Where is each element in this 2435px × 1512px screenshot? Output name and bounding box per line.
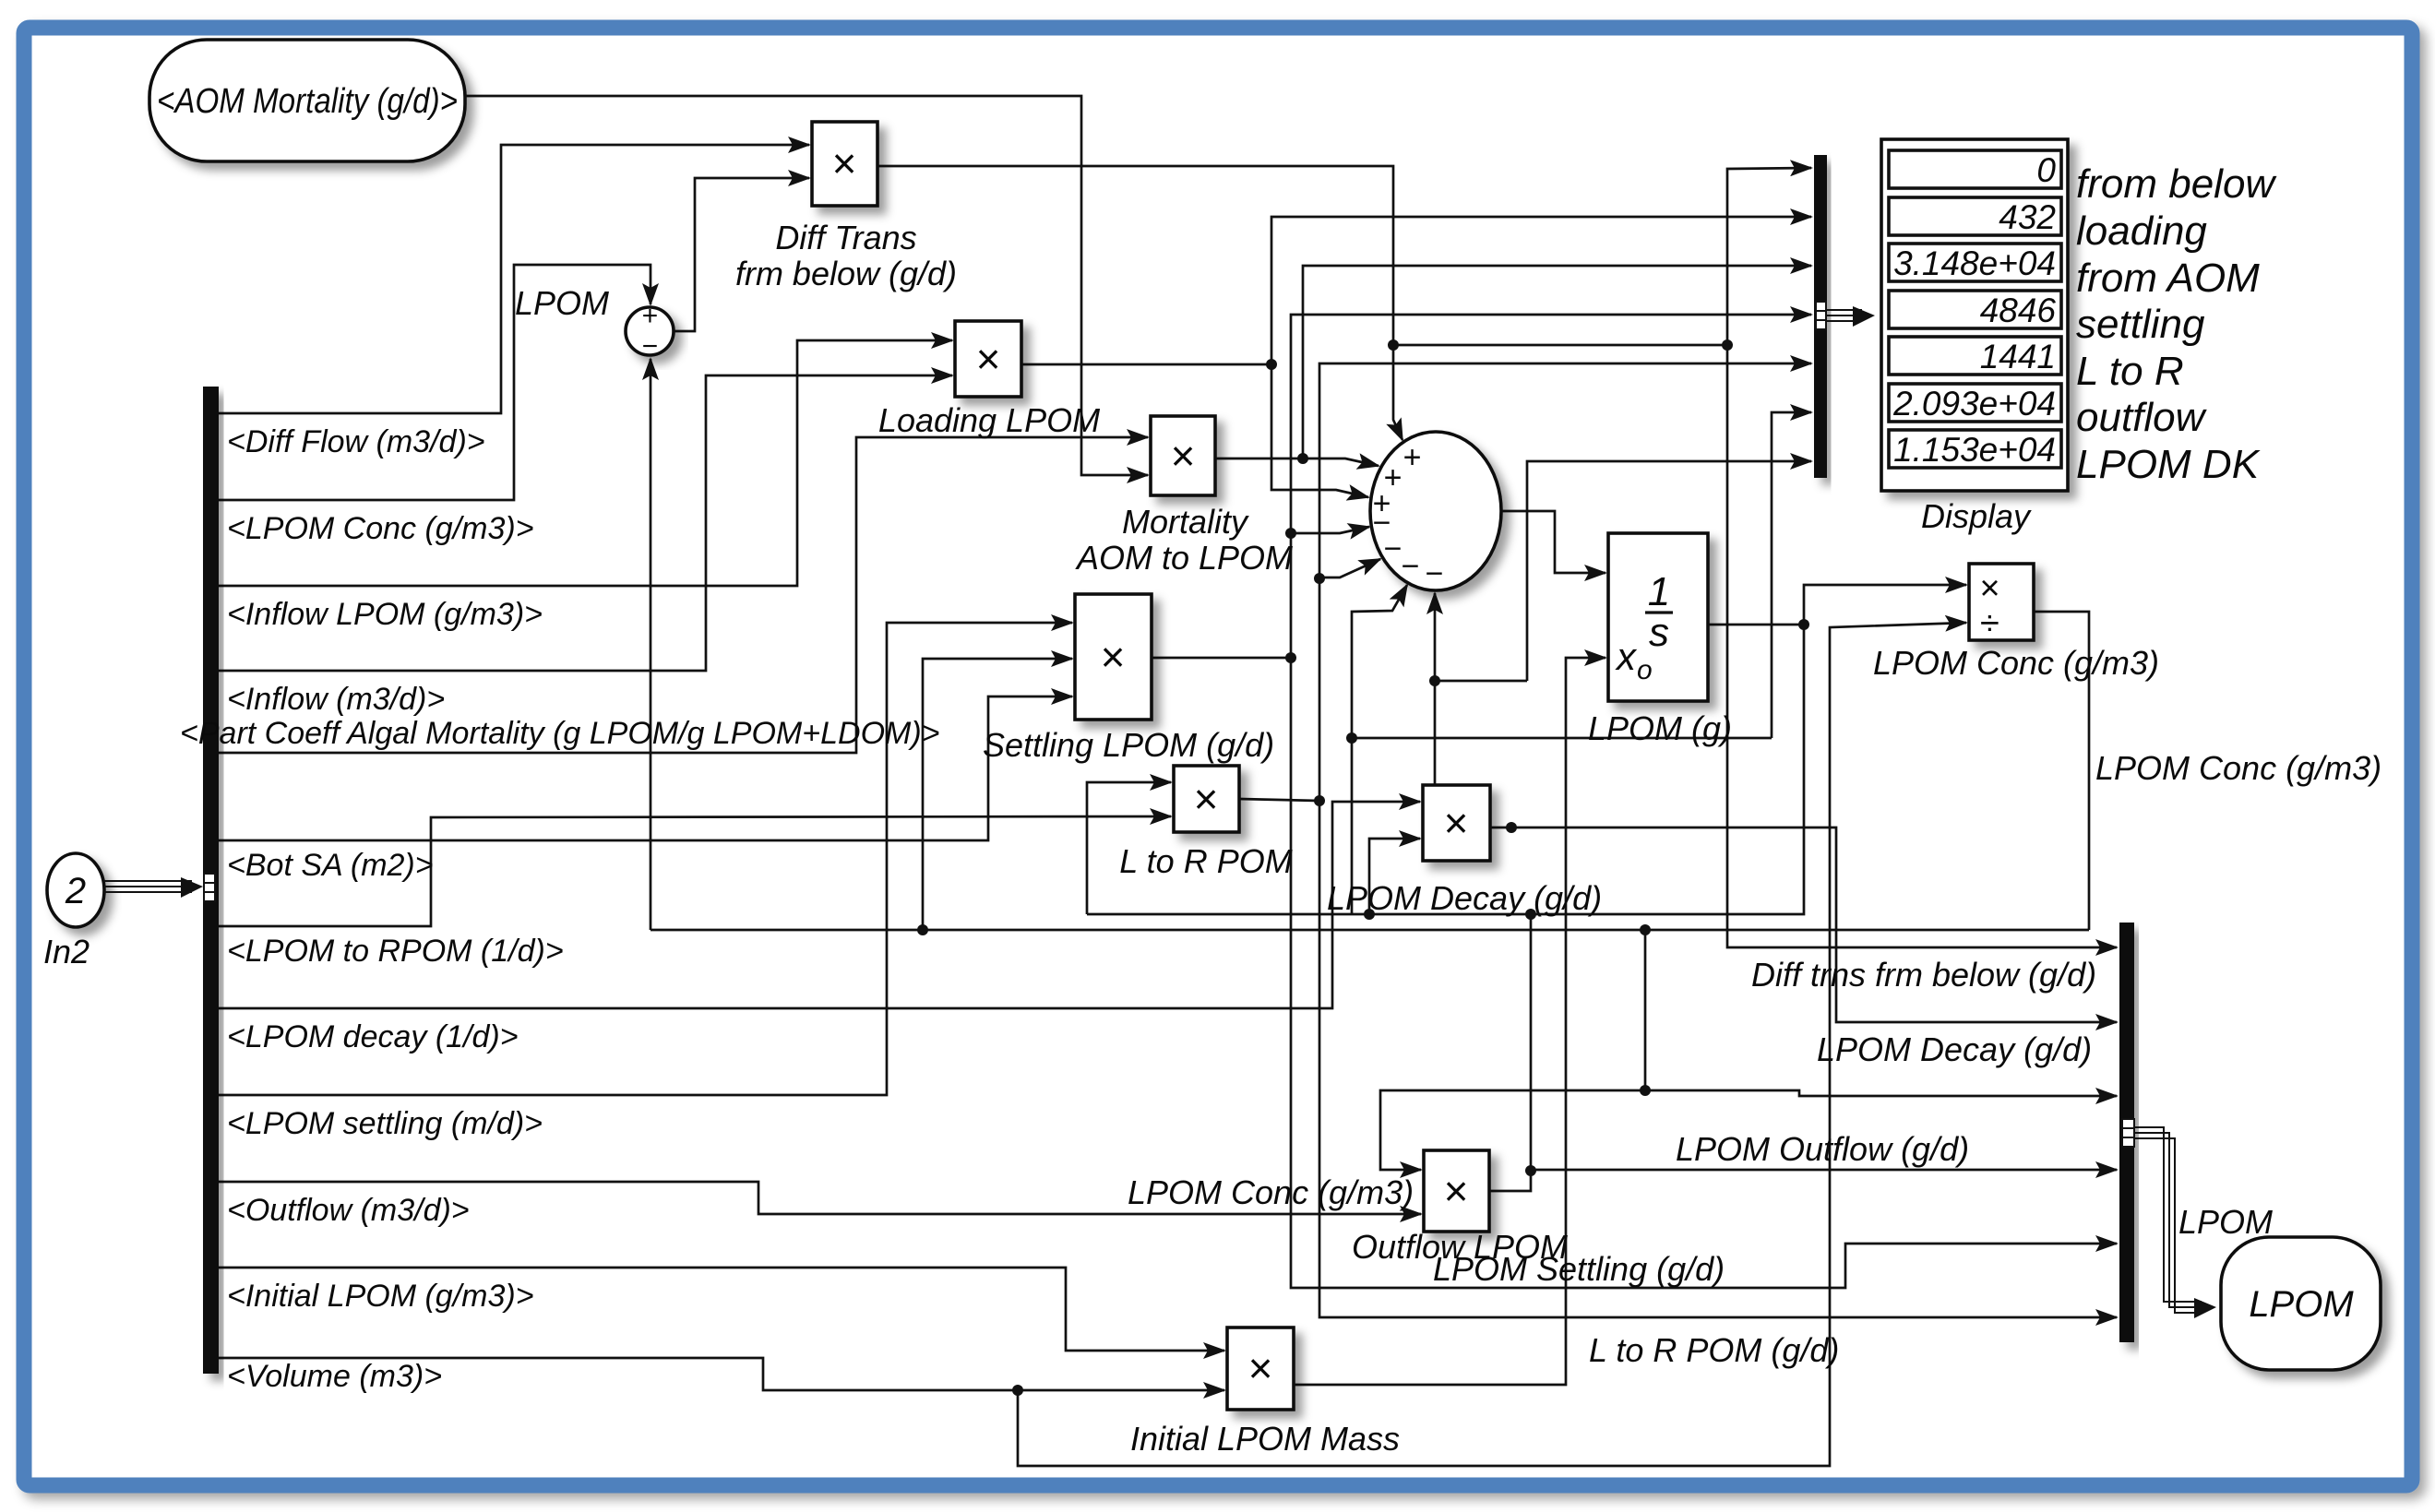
wire: LPOM(g) riser down bbox=[1087, 625, 1804, 914]
node: Settling out bbox=[1285, 652, 1296, 663]
wire: Diff Flow row to Diff Trans in1 bbox=[219, 145, 809, 413]
wire: Loading out to riser bbox=[1021, 363, 1271, 366]
node: DiffTrans mux riser bbox=[1722, 339, 1733, 351]
node: LPOM(g) Decay tap bbox=[1364, 909, 1375, 920]
wire: LPOM decay row to Decay in1 bbox=[219, 802, 1420, 1008]
svg-text:−: − bbox=[1383, 531, 1402, 566]
wire: Loading riser down to sum p3 bbox=[1271, 364, 1368, 497]
svg-text:<Inflow LPOM (g/m3)>: <Inflow LPOM (g/m3)> bbox=[227, 597, 543, 632]
svg-text:LPOM: LPOM bbox=[515, 284, 609, 322]
node: Loading out bbox=[1266, 359, 1277, 370]
svg-text:LPOM Decay (g/d): LPOM Decay (g/d) bbox=[1327, 879, 1602, 917]
wire: Mortality riser up to mux1 in3 (from AOM) bbox=[1303, 266, 1811, 458]
wire: integrator out to junction bbox=[1708, 624, 1804, 626]
wire: Initial Mass out to integrator xo bbox=[1294, 658, 1605, 1385]
svg-text:settling: settling bbox=[2076, 302, 2205, 347]
wire: LtoR riser down to mux2 in6 (L to R POM) bbox=[1319, 801, 2117, 1317]
wire: tap east to riser bbox=[1393, 344, 1727, 347]
svg-text:LPOM: LPOM bbox=[2178, 1203, 2273, 1241]
wire: Outflow out riser up to LPOM(g) line bbox=[1530, 914, 1533, 1171]
sum1 (small circle) bbox=[626, 307, 674, 355]
wire: Volume row to Initial Mass in2 bbox=[219, 1358, 1224, 1390]
svg-text:<Diff Flow (m3/d)>: <Diff Flow (m3/d)> bbox=[227, 424, 485, 459]
bus connector mux2 to LPOM outport bbox=[2122, 1119, 2134, 1147]
svg-text:AOM to LPOM: AOM to LPOM bbox=[1075, 539, 1293, 577]
wire: LPOM Conc line west to Outflow in1 bbox=[1380, 1090, 1645, 1170]
outport stadium LPOM bbox=[2221, 1237, 2381, 1370]
svg-text:2.093e+04: 2.093e+04 bbox=[1892, 385, 2056, 423]
wire: Diff Trans out to tap point bbox=[877, 166, 1393, 345]
wire: outflow net riser to mux1 in6 (outflow) bbox=[1772, 412, 1811, 738]
wire: LPOM Conc trunk tap to Settling in2 bbox=[923, 659, 1072, 930]
wire: Bot SA row to Settling in3 bbox=[219, 696, 1072, 840]
wire: LPOM Conc trunk west bbox=[651, 929, 2089, 932]
svg-text:L to R POM (g/d): L to R POM (g/d) bbox=[1589, 1331, 1839, 1369]
wire: LtoR branch to sum p6 bbox=[1319, 559, 1380, 577]
wire: Outflow junction east to mux2 in4 (LPOM Outflow) bbox=[1531, 1169, 2117, 1172]
wire: riser down to mux2 in1 (Diff trns frm below) bbox=[1727, 345, 2117, 947]
svg-text:Loading LPOM: Loading LPOM bbox=[878, 401, 1100, 439]
node: LtoR out bbox=[1314, 795, 1325, 806]
integrator LPOM (g) bbox=[1608, 533, 1708, 701]
svg-text:<LPOM decay (1/d)>: <LPOM decay (1/d)> bbox=[227, 1019, 519, 1054]
multiplier LPOM Decay bbox=[1423, 785, 1490, 861]
svg-text:LPOM Decay (g/d): LPOM Decay (g/d) bbox=[1817, 1030, 2092, 1068]
svg-text:LPOM Outflow (g/d): LPOM Outflow (g/d) bbox=[1676, 1130, 1969, 1168]
svg-text:Diff trns frm below (g/d): Diff trns frm below (g/d) bbox=[1751, 956, 2096, 994]
wire: LPOM Conc row to sum1 top bbox=[219, 265, 651, 500]
wire: Settling out to junction bbox=[1152, 657, 1291, 660]
node: LtoR p6 tap bbox=[1314, 573, 1325, 584]
node: Volume split bbox=[1012, 1385, 1023, 1396]
bus selector bar (left) bbox=[203, 387, 219, 1374]
svg-text:<Inflow (m3/d)>: <Inflow (m3/d)> bbox=[227, 682, 445, 717]
svg-text:432: 432 bbox=[1999, 198, 2056, 236]
multiplier Mortality AOM to LPOM bbox=[1151, 416, 1215, 495]
svg-text:÷: ÷ bbox=[1980, 604, 1999, 643]
node: conc line tap bbox=[1640, 1085, 1651, 1096]
node: DiffTrans tap bbox=[1388, 339, 1399, 351]
wire: Mortality to sum p2 bbox=[1303, 458, 1379, 466]
svg-text:<Bot SA (m2)>: <Bot SA (m2)> bbox=[227, 848, 434, 883]
mux1 bar (to display) bbox=[1814, 155, 1827, 478]
divide LPOM Conc bbox=[1969, 564, 2034, 640]
svg-text:4846: 4846 bbox=[1980, 292, 2057, 329]
wire: Settling riser down to mux2 in5 (LPOM Settling) bbox=[1291, 658, 2117, 1288]
wire: L to R out to riser bbox=[1239, 799, 1319, 801]
multiplier Initial LPOM Mass bbox=[1227, 1327, 1294, 1410]
wire: LPOM(g) tap to Decay in2 bbox=[1369, 839, 1420, 914]
svg-text:Initial LPOM Mass: Initial LPOM Mass bbox=[1130, 1420, 1400, 1458]
wire: sum p7 riser bbox=[1434, 593, 1437, 785]
bus connector In2 to bus bar bbox=[104, 881, 192, 892]
wire: Settling branch to sum p4 bbox=[1291, 527, 1369, 533]
node: Decay out bbox=[1506, 822, 1517, 833]
svg-text:×: × bbox=[1194, 775, 1219, 823]
multiplier Loading LPOM bbox=[955, 321, 1021, 397]
svg-text:Mortality: Mortality bbox=[1122, 503, 1249, 541]
svg-text:LPOM Conc (g/m3): LPOM Conc (g/m3) bbox=[1873, 644, 2159, 682]
wire: trunk riser down to LPOM Conc line bbox=[1644, 930, 1647, 1090]
wire: AOM Mortality to Mortality block in2 bbox=[465, 96, 1148, 475]
wire: p7 branch east to mux1 riser bbox=[1435, 680, 1527, 683]
svg-text:Diff Trans: Diff Trans bbox=[775, 219, 916, 256]
wire: Outflow row to Outflow in2 bbox=[219, 1182, 1421, 1214]
svg-text:×: × bbox=[1248, 1344, 1273, 1392]
node: trunk mux riser tap bbox=[1640, 924, 1651, 935]
wire: Part Coeff row to Mortality in1 bbox=[219, 437, 1148, 753]
wire: riser to mux1 in7 (LPOM DK row) bbox=[1527, 461, 1811, 681]
svg-text:LPOM: LPOM bbox=[2249, 1284, 2354, 1325]
svg-text:×: × bbox=[976, 335, 1001, 383]
node: integrator out bbox=[1798, 619, 1809, 630]
svg-text:+: + bbox=[641, 301, 658, 331]
wire: sum out to integrator in1 bbox=[1501, 511, 1605, 573]
wire: Mortality out to junction bbox=[1215, 458, 1303, 460]
multiplier L to R POM bbox=[1174, 766, 1239, 832]
node: p7 branch bbox=[1429, 675, 1440, 686]
sum2 (big ellipse) bbox=[1370, 432, 1501, 590]
svg-text:o: o bbox=[1637, 655, 1653, 685]
svg-text:LPOM Conc (g/m3): LPOM Conc (g/m3) bbox=[2095, 749, 2381, 787]
wire: tap to sum p1 (top) bbox=[1393, 345, 1403, 440]
wire: Decay out east bbox=[1490, 827, 2117, 1022]
svg-text:0: 0 bbox=[2036, 151, 2056, 189]
svg-text:−: − bbox=[641, 331, 658, 362]
svg-text:LPOM DK: LPOM DK bbox=[2076, 442, 2261, 487]
svg-text:1: 1 bbox=[1648, 569, 1670, 614]
wire: Volume branch south-east to divide in2 bbox=[1018, 623, 1966, 1466]
svg-text:Display: Display bbox=[1921, 497, 2032, 535]
input stadium AOM Mortality bbox=[149, 40, 465, 161]
wire: trunk to sum1 bottom bbox=[650, 359, 652, 930]
wire: Outflow out riser bbox=[1489, 1171, 1531, 1191]
svg-text:LPOM Conc (g/m3): LPOM Conc (g/m3) bbox=[1128, 1173, 1414, 1211]
svg-text:frm below (g/d): frm below (g/d) bbox=[735, 255, 957, 292]
svg-text:LPOM Settling (g/d): LPOM Settling (g/d) bbox=[1433, 1250, 1725, 1288]
svg-text:from AOM: from AOM bbox=[2076, 256, 2260, 301]
node: trunk-Settling tap bbox=[917, 924, 928, 935]
multiplier Settling LPOM bbox=[1075, 594, 1152, 720]
svg-text:<LPOM Conc (g/m3)>: <LPOM Conc (g/m3)> bbox=[227, 511, 534, 546]
svg-text:3.148e+04: 3.148e+04 bbox=[1893, 244, 2056, 282]
Display block bbox=[1881, 139, 2068, 491]
node: outflow net west bbox=[1346, 732, 1357, 744]
wire: Inflow row to Loading in2 bbox=[219, 375, 952, 671]
wire: Inflow LPOM row to Loading in1 bbox=[219, 340, 952, 586]
svg-text:×: × bbox=[1444, 1167, 1469, 1215]
node: Mortality out bbox=[1297, 453, 1308, 464]
wire: LPOM Conc line east to mux2 in3 bbox=[1645, 1090, 2117, 1096]
svg-text:<AOM Mortality (g/d)>: <AOM Mortality (g/d)> bbox=[157, 82, 458, 121]
inport In2 bbox=[47, 853, 104, 927]
svg-text:In2: In2 bbox=[43, 933, 90, 970]
svg-text:1.153e+04: 1.153e+04 bbox=[1893, 431, 2056, 469]
svg-text:−: − bbox=[1425, 556, 1443, 591]
bus connector mux1 to display bbox=[1816, 302, 1826, 329]
svg-text:<LPOM settling (m/d)>: <LPOM settling (m/d)> bbox=[227, 1106, 543, 1141]
svg-text:2: 2 bbox=[65, 871, 86, 911]
svg-text:<Initial LPOM (g/m3)>: <Initial LPOM (g/m3)> bbox=[227, 1279, 534, 1314]
wire: junction up to divide in1 bbox=[1804, 585, 1966, 625]
svg-text:loading: loading bbox=[2076, 208, 2207, 254]
svg-text:x: x bbox=[1615, 635, 1638, 678]
node: Outflow out bbox=[1525, 1165, 1536, 1176]
wire: Settling riser up to mux1 in4 (settling) bbox=[1291, 315, 1811, 658]
wire: net riser to sum p6 bbox=[1352, 585, 1407, 914]
wire: outflow net line bbox=[1352, 737, 1772, 740]
svg-text:s: s bbox=[1649, 610, 1669, 655]
node: outflow riser join bbox=[1525, 909, 1536, 920]
svg-text:×: × bbox=[1171, 432, 1196, 480]
wire: LPOM to RPOM row to L to R in2 bbox=[219, 816, 1171, 926]
wire: Initial LPOM row to Initial Mass in1 bbox=[219, 1268, 1224, 1351]
svg-text:×: × bbox=[832, 139, 857, 187]
wire: Loading riser up to mux1 in2 (loading) bbox=[1271, 217, 1811, 364]
mux2 bar (to outport) bbox=[2119, 923, 2134, 1342]
wire: LPOM(g) to LtoR in1 bbox=[1087, 782, 1171, 914]
svg-text:×: × bbox=[1979, 569, 1999, 608]
svg-text:outflow: outflow bbox=[2076, 395, 2208, 440]
wire: LtoR riser up to mux1 in5 (L to R) bbox=[1319, 363, 1811, 801]
svg-text:1441: 1441 bbox=[1980, 338, 2056, 375]
wire: riser up to mux1 in1 (from below) bbox=[1727, 168, 1811, 345]
node: Settling p4 tap bbox=[1285, 528, 1296, 539]
svg-text:LPOM (g): LPOM (g) bbox=[1588, 709, 1732, 747]
svg-text:Settling LPOM (g/d): Settling LPOM (g/d) bbox=[983, 726, 1274, 764]
multiplier Diff Trans frm below bbox=[812, 122, 877, 206]
wire: sum1 out to Diff Trans in2 bbox=[674, 178, 809, 331]
svg-text:L to R POM: L to R POM bbox=[1119, 842, 1292, 880]
wire: divide out down right side bbox=[2034, 612, 2089, 930]
svg-text:×: × bbox=[1444, 799, 1469, 847]
svg-text:−: − bbox=[1401, 549, 1419, 584]
svg-text:L to R: L to R bbox=[2076, 349, 2184, 394]
svg-text:<LPOM to RPOM (1/d)>: <LPOM to RPOM (1/d)> bbox=[227, 934, 564, 969]
svg-text:<Part Coeff Algal Mortality (g: <Part Coeff Algal Mortality (g LPOM/g LP… bbox=[180, 716, 940, 751]
svg-text:+: + bbox=[1403, 440, 1421, 475]
wire: LPOM settling row to Settling in1 bbox=[219, 623, 1072, 1095]
svg-text:<Volume (m3)>: <Volume (m3)> bbox=[227, 1359, 442, 1394]
multiplier Outflow LPOM bbox=[1424, 1150, 1489, 1232]
svg-text:from below: from below bbox=[2076, 161, 2277, 207]
svg-text:×: × bbox=[1101, 633, 1126, 681]
svg-text:<Outflow (m3/d)>: <Outflow (m3/d)> bbox=[227, 1193, 470, 1228]
